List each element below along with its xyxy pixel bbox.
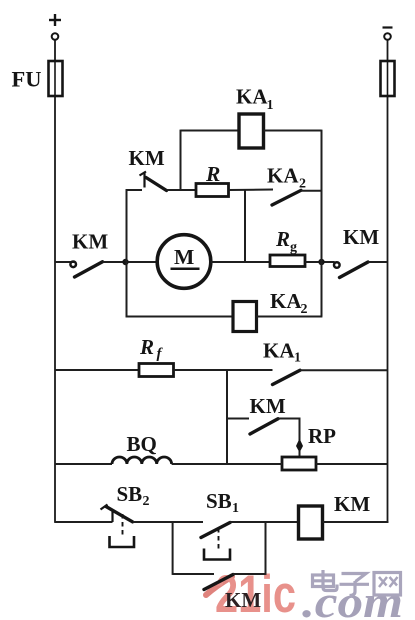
plus terminal (49, 14, 61, 40)
svg-text:FU: FU (12, 67, 42, 92)
svg-text:2: 2 (301, 302, 308, 317)
resistor R (196, 184, 229, 197)
contact KM right hook (334, 262, 340, 268)
wire SB2 to SB1 (133, 521, 203, 523)
svg-text:2: 2 (299, 177, 306, 192)
svg-text:SB: SB (206, 489, 232, 513)
svg-text:M: M (174, 245, 194, 269)
svg-text:KM: KM (250, 394, 286, 418)
contact KM left blade (75, 262, 103, 277)
contact KM upper tick (140, 172, 147, 188)
wire KM contact row (227, 418, 249, 420)
svg-text:R: R (275, 227, 290, 251)
wire R to KA2 contact (229, 189, 274, 192)
potentiometer RP (282, 457, 316, 470)
wire KA1 branch right (264, 130, 322, 132)
watermark char wang (374, 573, 401, 596)
wire KA2 coil branch left (126, 316, 233, 318)
node B junction (318, 259, 324, 265)
svg-text:KM: KM (334, 492, 370, 516)
svg-text:1: 1 (267, 98, 274, 113)
minus terminal (383, 28, 393, 40)
wire BQ to RP (172, 463, 282, 465)
wire KA2 contact right (301, 190, 322, 192)
right rail wire (387, 40, 389, 523)
contact KM mid blade (250, 419, 278, 434)
svg-text:KM: KM (225, 588, 261, 612)
contact KA2 blade (272, 190, 301, 205)
resistor Rg (270, 255, 305, 267)
svg-text:g: g (290, 240, 297, 255)
pushbutton SB1 blade (201, 523, 230, 538)
wire Rf to KA1 contact (174, 369, 273, 371)
contactor coil KM (299, 506, 323, 539)
pushbutton SB2 plunger (122, 514, 124, 536)
pushbutton SB2 blade (106, 507, 133, 522)
motor M (157, 235, 211, 289)
svg-text:SB: SB (117, 482, 143, 506)
svg-text:1: 1 (294, 351, 301, 366)
svg-text:R: R (139, 335, 154, 359)
wire main row to node A (103, 261, 158, 263)
svg-text:KM: KM (343, 225, 379, 249)
wire control row left (55, 521, 113, 523)
contact KM latch blade (204, 575, 233, 590)
node A junction (122, 259, 128, 265)
wire RP to right rail (316, 463, 388, 465)
svg-text:KM: KM (72, 230, 108, 254)
contact KA1 blade (273, 370, 301, 384)
relay coil KA1 (239, 114, 264, 148)
wire Rg to node B (305, 261, 335, 263)
svg-text:BQ: BQ (127, 432, 157, 456)
wire node A down (126, 262, 128, 317)
wire latch branch right leg (265, 522, 267, 575)
svg-text:KA: KA (270, 289, 302, 313)
pushbutton SB2 tick (101, 505, 108, 510)
svg-text:KM: KM (129, 146, 165, 170)
wire main row right (368, 261, 388, 263)
wire junction Rf row down (226, 370, 228, 464)
wire KA1 branch left (181, 130, 240, 132)
wire KA2 coil branch right (257, 316, 323, 318)
wire Rf row left (55, 369, 139, 371)
fuse FU2 (381, 61, 395, 96)
wire junction R row down (244, 190, 246, 262)
contact KM left hook (70, 262, 76, 268)
wire latch branch left leg (172, 522, 174, 575)
svg-text:KA: KA (263, 339, 295, 363)
wire motor right (211, 261, 270, 263)
wiper arrow RP (296, 439, 303, 453)
watermark char dian (313, 570, 338, 591)
wire KM coil to right rail (323, 521, 389, 523)
wire KA1 contact right (300, 369, 388, 371)
wire main row left (55, 261, 75, 263)
svg-text:RP: RP (308, 424, 336, 448)
contact KM right blade (340, 262, 369, 278)
wire node A up (126, 189, 128, 262)
wire R row left (126, 189, 142, 191)
svg-text:1: 1 (232, 501, 239, 516)
svg-text:KA: KA (267, 164, 299, 188)
inductor BQ (112, 457, 172, 464)
pushbutton SB1 plunger (218, 528, 220, 549)
wire KA1 branch left leg (180, 130, 182, 190)
wire latch branch right (233, 573, 266, 575)
pushbutton SB2 bracket (110, 536, 135, 547)
contact KM upper blade (146, 178, 167, 191)
left rail wire (54, 40, 56, 523)
wire BQ row left (55, 463, 112, 465)
pushbutton SB1 bracket (204, 549, 230, 560)
wire R row (167, 189, 197, 191)
wire latch branch left (173, 573, 214, 575)
fuse FU (49, 61, 63, 96)
resistor Rf (139, 364, 174, 377)
svg-text:2: 2 (143, 494, 150, 509)
wire KM contact to wiper (278, 419, 300, 457)
relay coil KA2 (233, 302, 257, 332)
wire KA1 branch right leg (321, 130, 323, 317)
svg-text:KA: KA (236, 85, 268, 109)
watermark 21ic logo swoosh (206, 577, 232, 596)
wire SB1 to KM coil (230, 521, 299, 523)
watermark char zi (340, 574, 370, 596)
svg-text:R: R (205, 162, 220, 186)
